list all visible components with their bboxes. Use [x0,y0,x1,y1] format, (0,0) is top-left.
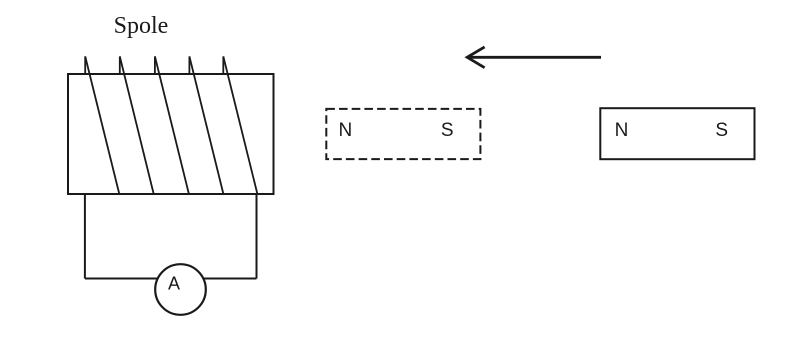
bar magnet (solid) [600,108,754,159]
wire: left vertical from coil to bottom bus [84,194,86,279]
dashed magnet outline (previous position) [326,109,480,159]
coil winding turn 2 [120,56,154,194]
coil winding turn 5 [223,56,257,194]
wire: bottom horizontal bus [85,278,257,280]
svg-text:N: N [615,120,629,141]
svg-text:S: S [715,120,728,141]
arrow: magnet motion to the left, shaft [467,56,601,59]
svg-text:N: N [339,120,353,141]
svg-text:Spole: Spole [114,13,169,39]
coil L1 body rectangle [68,74,274,194]
coil winding turn 1 [85,56,119,194]
coil winding turn 4 [189,56,223,194]
ammeter A1 circle [155,264,206,315]
svg-text:A: A [168,274,180,294]
svg-text:S: S [441,120,454,141]
coil winding turn 3 [155,56,189,194]
wire: right vertical from bottom bus to coil [256,194,258,279]
arrow head [467,47,484,68]
